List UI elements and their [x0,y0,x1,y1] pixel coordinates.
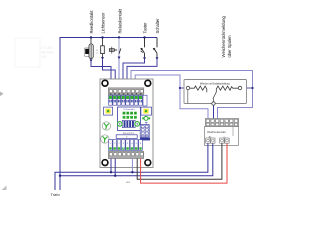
LED indicator right [141,107,152,115]
node turnout left [186,86,189,89]
trimpot P2 [101,135,109,143]
arrow LDR [101,57,104,60]
controller block U1 [118,107,141,131]
mounting hole top left [102,80,108,86]
magnet of reed switch [84,48,91,57]
top terminal symbol row [109,93,147,106]
svg-text:aus: aus [126,181,131,184]
LED D1 [142,116,150,124]
wire right node to tap [242,87,253,89]
servo module terminal strip [205,118,238,126]
label Trafo [51,192,61,197]
blue bar [140,138,150,141]
note text (faint) [41,46,54,59]
node bus junction 3 [118,36,120,38]
relay on PCB [118,120,140,127]
mounting hole top right [145,80,151,86]
wire decoder to turnout left loop [135,75,208,119]
bottom screw terminal strip [108,151,144,158]
module terminal AC1 [206,138,210,143]
label Relaiskontakt [117,8,122,33]
mounting hole bottom right [145,160,151,166]
label Lichtsensor [100,12,105,34]
wire left vertical to Trafo [59,37,61,190]
wire relay contact to decoder [118,59,120,89]
mounting hole bottom left [102,160,108,166]
svg-text:2 x LED: 2 x LED [41,46,53,50]
arrow reed [90,60,93,63]
node tap right [251,87,253,89]
coil L2 [216,86,238,92]
wire relay contact column [118,38,120,60]
wire Taster to decoder [123,59,145,89]
wire red plus bus [141,143,227,183]
page mark bottom left [2,186,7,191]
label Reedkontakt [89,10,94,34]
node supply 1 [110,171,112,173]
arrow Taster [143,57,146,60]
wire tap to left node [180,87,186,89]
svg-text:Taster: Taster [142,22,147,34]
reed switch S1 [89,38,93,60]
note box (faint) [15,38,40,67]
decoder PCB outline [100,79,153,168]
module terminal plus [220,138,224,143]
svg-text:Lichtsensor: Lichtsensor [100,12,105,34]
servo module box [205,127,239,146]
module terminal AC2 [211,138,215,143]
wire turnout common to module [213,105,215,119]
node turnout right [238,86,241,89]
wire PCB supply 2 [114,159,116,176]
page mark left [0,92,4,97]
wire decoder to turnout right loop [131,71,253,120]
reed note text [96,49,98,55]
turnout box Weiche mit Endabschaltung [184,80,247,104]
wire Schalter to decoder [127,59,157,89]
node bus junction 1 [90,36,92,38]
node tap left [179,87,181,89]
arrow relay contact [118,57,121,60]
wire LDR to decoder [103,60,116,89]
node trafo bus 2 junction [59,175,61,177]
node supply 2 [114,175,116,177]
svg-text:Reedkontakt: Reedkontakt [89,10,94,34]
turnout box title [200,83,230,86]
svg-text:Trafo: Trafo [51,192,61,197]
jumper bar [116,135,137,139]
svg-text:16V ~: 16V ~ [41,55,50,59]
label aus [126,181,131,184]
svg-text:IC-Decoder: IC-Decoder [123,108,134,111]
label Schalter [155,18,160,34]
node aux [131,171,133,173]
svg-text:über Spulen: über Spulen [227,35,232,58]
wire black minus bus [137,143,222,179]
controller bottom text [123,133,135,135]
node bus junction 2 [101,36,103,38]
push button Taster [140,38,144,57]
LDR resistor R1 [101,38,105,57]
terminal label plus minus [223,136,227,138]
relay contact K1 [109,47,121,54]
LED indicator left [104,107,113,115]
wire trafo bus 1 [55,143,208,190]
node turnout bottom [212,102,215,105]
wire top bus [60,37,157,39]
node bus junction 4 [143,36,145,38]
wire PCB supply 1 [110,159,112,173]
module terminal minus [225,138,229,143]
terminal label AC [208,135,211,138]
wire trafo bus 2 [60,143,213,176]
label Weichenrueckmeldung [221,16,226,58]
end switch blade [213,92,216,102]
svg-text:≈: ≈ [96,52,98,55]
toggle switch Schalter [153,38,157,58]
svg-text:Weichendecoder: Weichendecoder [207,131,226,134]
svg-text:mit Vorw.: mit Vorw. [41,51,54,55]
wire PCB aux [131,159,133,173]
svg-text:Weichenrückmeldung: Weichenrückmeldung [221,16,226,58]
wire reed to decoder [91,62,111,89]
bottom terminal symbol row [109,140,143,151]
wire left node to bottom rail [187,90,189,103]
arrow Schalter [156,57,159,60]
label Taster [142,22,147,34]
DIP switch block [140,125,149,138]
servo module label [207,131,226,134]
trimpot P1 [102,122,110,130]
svg-text:Schalter: Schalter [155,18,160,34]
svg-text:Relaiskontakt: Relaiskontakt [117,8,122,33]
svg-text:Weiche mit Endabschaltung: Weiche mit Endabschaltung [200,83,230,86]
coil L1 [190,86,207,92]
top screw terminal strip [108,88,144,95]
label ueber Spulen [227,35,232,58]
